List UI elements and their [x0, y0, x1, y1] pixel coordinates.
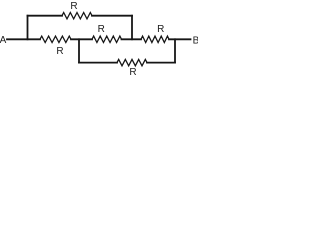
wire A to first resistor — [7, 38, 40, 40]
wire top branch right horizontal — [92, 15, 132, 17]
wire between left and middle resistors — [71, 38, 92, 40]
svg-text:R: R — [157, 24, 164, 35]
wire top branch right vertical — [131, 16, 133, 40]
wire bottom branch left vertical — [78, 39, 80, 62]
node A — [0, 35, 7, 46]
resistor R (right, main line) — [141, 36, 169, 42]
wire bottom branch right horizontal — [147, 62, 175, 64]
svg-text:R: R — [70, 1, 77, 12]
label R (right resistor) — [157, 24, 164, 35]
label R (left resistor) — [56, 46, 63, 57]
node B — [193, 36, 200, 47]
resistor R (middle, main line) — [92, 36, 122, 42]
wire between middle and right resistors — [122, 38, 142, 40]
svg-text:R: R — [56, 46, 63, 57]
resistor R (left, main line) — [40, 36, 71, 42]
resistor R (top branch) — [62, 13, 92, 19]
wire top branch left vertical — [27, 16, 29, 40]
wire bottom branch left horizontal — [79, 62, 117, 64]
wire bottom branch right vertical — [174, 39, 176, 62]
wire top branch left horizontal — [28, 15, 63, 17]
svg-text:A: A — [0, 35, 7, 46]
svg-text:R: R — [98, 24, 105, 35]
svg-text:R: R — [129, 67, 136, 76]
label R (middle resistor) — [98, 24, 105, 35]
resistor R (bottom branch) — [117, 59, 147, 65]
label R (bottom resistor) — [129, 67, 136, 78]
label R (top resistor) — [70, 1, 77, 12]
svg-text:B: B — [193, 36, 198, 47]
wire right resistor to B — [169, 38, 191, 40]
